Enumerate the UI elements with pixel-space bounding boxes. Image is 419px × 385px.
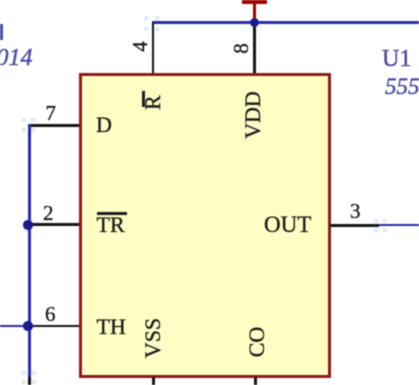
wire: pin 3 OUT horizontal (black) bbox=[330, 224, 379, 227]
partial value 014 of left component bbox=[0, 46, 33, 70]
wire: pin 7 horizontal (black) bbox=[28, 124, 79, 127]
pin name CO (rotated) bbox=[246, 325, 268, 359]
wire: top blue net from pin4 corner to right edge bbox=[152, 21, 419, 24]
wire: pin 8 vertical stub (black) bbox=[253, 23, 256, 73]
junction dot at pin8/power bbox=[250, 18, 259, 27]
wire: bottom pin VSS stub (black) bbox=[152, 377, 155, 385]
IC U1 555 body bbox=[79, 73, 331, 378]
value 555 bbox=[385, 75, 419, 98]
grid marker cluster at pin7 corner bbox=[22, 118, 26, 122]
pin number 3 bbox=[350, 201, 361, 222]
pin number 4 (rotated) bbox=[130, 36, 151, 57]
wire: blue horizontal into pin 6 from left edge bbox=[0, 325, 29, 328]
pin name VSS (rotated) bbox=[142, 314, 164, 362]
pin number 8 (rotated) bbox=[231, 38, 252, 59]
pin number 7 bbox=[46, 103, 57, 124]
partial reference sliver at left edge bbox=[0, 24, 3, 40]
overline of R (rotated) bbox=[142, 91, 145, 107]
pin name R (rotated) bbox=[142, 94, 164, 110]
grid marker cluster at OUT wire bbox=[374, 219, 378, 223]
pin number 6 bbox=[45, 304, 56, 325]
pin name OUT bbox=[264, 213, 311, 236]
wire: left blue vertical net bbox=[28, 124, 31, 377]
reference U1 bbox=[382, 47, 411, 71]
grid marker cluster at bottom of left net bbox=[22, 371, 26, 375]
power symbol (red) top bar bbox=[242, 0, 267, 4]
wire: black stub below left blue net bbox=[28, 377, 31, 385]
grid marker cluster at pin4 corner bbox=[144, 16, 148, 20]
power symbol (red) vertical bbox=[253, 0, 256, 22]
wire: pin 2 horizontal (black) bbox=[29, 223, 79, 226]
wire: OUT blue net to right edge bbox=[379, 224, 419, 227]
pin name VDD (rotated) bbox=[242, 90, 264, 140]
wire: bottom pin CO stub (black) bbox=[254, 377, 257, 385]
pin name TH bbox=[97, 316, 126, 338]
wire: pin 6 horizontal (black) bbox=[29, 325, 79, 328]
pin name TR bbox=[97, 214, 125, 236]
junction dot at pin 6 bbox=[23, 321, 32, 330]
wire: pin 4 vertical stub (black) bbox=[152, 22, 155, 73]
junction dot at pin 2 bbox=[23, 220, 32, 229]
pin number 2 bbox=[43, 203, 54, 224]
overline of TR bbox=[97, 212, 127, 215]
pin name D bbox=[96, 114, 112, 136]
